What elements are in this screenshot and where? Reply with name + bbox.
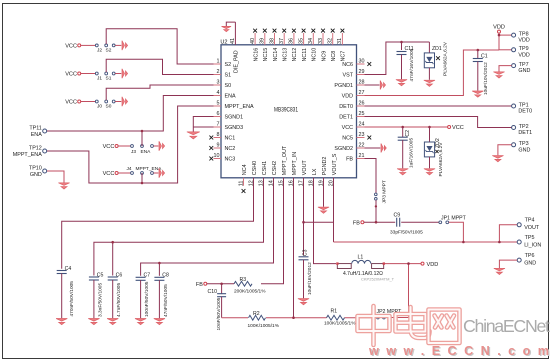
- svg-text:NC15: NC15: [263, 48, 269, 62]
- svg-text:LI_ION: LI_ION: [524, 242, 541, 248]
- wire SGND1 SGND3: [193, 117, 213, 132]
- wire S0 net: [106, 85, 213, 100]
- wire JP2 to VDD: [385, 264, 408, 318]
- test point TP12 MPPT_ENA: [13, 146, 47, 159]
- svg-text:NC8: NC8: [331, 51, 337, 62]
- svg-text:9: 9: [217, 143, 220, 149]
- svg-text:29: 29: [359, 69, 365, 75]
- wire J1 to ground: [115, 73, 121, 75]
- wire J3 to ground: [154, 145, 159, 147]
- jumper J0 S0: [95, 100, 115, 110]
- junction C8 top: [158, 262, 161, 265]
- svg-text:24: 24: [359, 122, 365, 128]
- svg-text:33pF/50V/1005: 33pF/50V/1005: [390, 230, 423, 236]
- power VCC J3: [103, 144, 119, 150]
- svg-text:GND: GND: [30, 172, 42, 178]
- ground C5: [88, 319, 99, 325]
- svg-text:VDD: VDD: [518, 52, 529, 58]
- svg-text:C2: C2: [405, 130, 411, 137]
- wire VCC to J4: [118, 172, 131, 174]
- svg-text:10nF/50V/1005: 10nF/50V/1005: [216, 297, 222, 330]
- power VCC terminal: [448, 125, 464, 131]
- wire VOUT net: [303, 178, 305, 256]
- svg-text:21: 21: [359, 153, 365, 159]
- svg-text:5: 5: [217, 101, 220, 107]
- ground J0: [122, 97, 128, 107]
- capacitor C8: [154, 273, 169, 319]
- ground C11: [396, 80, 407, 86]
- ground C6: [107, 319, 118, 325]
- svg-text:J2: J2: [97, 48, 102, 54]
- wire SGND2: [365, 147, 381, 149]
- jumper J3 ENA: [131, 145, 154, 155]
- svg-text:NC6: NC6: [342, 62, 353, 68]
- test point TP11 ENA: [29, 126, 46, 139]
- svg-text:22: 22: [359, 143, 365, 149]
- svg-text:PLVA662A,6.2V: PLVA662A,6.2V: [443, 41, 449, 76]
- svg-text:LX: LX: [312, 168, 318, 175]
- svg-text:100nF/50V/1005: 100nF/50V/1005: [144, 281, 150, 317]
- zener diode ZD2: [424, 127, 443, 177]
- svg-text:J0: J0: [97, 104, 102, 110]
- wire VST net: [365, 42, 430, 75]
- ground TP7: [493, 72, 504, 78]
- svg-text:4: 4: [217, 90, 220, 96]
- test point TP8 VDD: [512, 32, 530, 44]
- resistor R1 100K: [324, 309, 356, 327]
- power VCC J4: [103, 171, 119, 177]
- wire VDD net: [365, 33, 512, 95]
- svg-text:SGND3: SGND3: [225, 125, 244, 131]
- wire ENA net: [47, 96, 214, 147]
- test point TP9 VDD: [512, 46, 530, 58]
- svg-text:PGND1: PGND1: [334, 83, 353, 89]
- svg-text:S2: S2: [225, 62, 232, 68]
- svg-text:TP8: TP8: [519, 32, 529, 38]
- svg-text:w w w . E C C N . c o m: w w w . E C C N . c o m: [368, 344, 549, 358]
- svg-text:TP1: TP1: [519, 102, 529, 108]
- svg-text:47nF/50V/1005: 47nF/50V/1005: [163, 284, 169, 317]
- svg-text:VDD: VDD: [518, 38, 529, 44]
- ground J3: [159, 141, 165, 151]
- junction VDD/TP8: [498, 34, 501, 37]
- svg-text:PLVA662A,6.2V: PLVA662A,6.2V: [438, 142, 444, 177]
- junction FB/JP3: [375, 221, 378, 224]
- svg-text:NC13: NC13: [283, 48, 289, 62]
- capacitor C5: [89, 272, 104, 318]
- junction MPPT_IN/rail: [292, 316, 295, 319]
- wire FB row: [364, 221, 439, 223]
- ground ZD1: [424, 80, 435, 86]
- svg-text:TP3: TP3: [519, 141, 529, 147]
- wire CSH1 net: [94, 178, 264, 276]
- capacitor C2: [398, 127, 415, 168]
- ground SGND1/SGND3: [187, 132, 200, 139]
- wire VOUT_S net: [304, 178, 518, 242]
- capacitor C6: [108, 272, 123, 318]
- wire TP6 to ground: [499, 260, 517, 268]
- svg-text:SGND1: SGND1: [225, 115, 244, 121]
- svg-text:27: 27: [359, 90, 365, 96]
- svg-text:6: 6: [217, 111, 220, 117]
- ground TP6: [494, 268, 505, 274]
- wire FB lower rail: [222, 317, 377, 319]
- jumper J4 MPPT_ENA: [127, 166, 163, 175]
- svg-text:J1: J1: [97, 76, 102, 82]
- ground C8: [154, 319, 165, 325]
- svg-text:C4: C4: [65, 266, 72, 272]
- svg-text:TP10: TP10: [29, 166, 42, 172]
- svg-text:ZD1: ZD1: [432, 46, 442, 52]
- svg-text:S0: S0: [106, 104, 112, 110]
- svg-text:SGND2: SGND2: [334, 146, 353, 152]
- svg-text:U2: U2: [220, 39, 227, 45]
- capacitor C4: [57, 266, 75, 318]
- svg-text:C7: C7: [144, 273, 151, 279]
- svg-text:3.3nF/50V/1005: 3.3nF/50V/1005: [97, 283, 103, 317]
- svg-text:GND: GND: [518, 68, 530, 74]
- svg-text:26: 26: [359, 101, 365, 107]
- jumper JP3 MPPT: [375, 180, 388, 203]
- svg-text:TP11: TP11: [29, 126, 41, 132]
- svg-text:10uF/10V/2012: 10uF/10V/2012: [483, 62, 489, 95]
- junction TP4 riser: [498, 241, 501, 244]
- jumper JP2 MPPT: [377, 309, 403, 319]
- wire TP7 to ground: [499, 66, 512, 72]
- svg-text:R1: R1: [331, 309, 338, 315]
- svg-text:34: 34: [308, 38, 314, 44]
- svg-text:1uF/16V/1005: 1uF/16V/1005: [408, 138, 414, 168]
- node FB (left): [196, 282, 207, 288]
- power VDD right: [421, 262, 438, 268]
- svg-text:R3: R3: [240, 277, 247, 283]
- svg-text:33: 33: [318, 38, 324, 44]
- svg-text:C5: C5: [97, 272, 104, 278]
- svg-text:TP5: TP5: [525, 235, 535, 241]
- svg-text:4.7nF/50V/1005: 4.7nF/50V/1005: [116, 283, 122, 317]
- svg-text:DET1: DET1: [339, 115, 353, 121]
- svg-text:ChinaECNet: ChinaECNet: [463, 316, 550, 336]
- svg-text:VCC: VCC: [65, 72, 77, 78]
- svg-text:MPPT_ENA: MPPT_ENA: [225, 104, 254, 110]
- svg-text:NC5: NC5: [342, 136, 353, 142]
- svg-text:C10: C10: [208, 289, 218, 295]
- svg-text:NC7: NC7: [341, 51, 347, 62]
- ground C1: [472, 91, 483, 97]
- test point TP10 GND: [29, 166, 47, 179]
- wire CSH0 net: [62, 178, 254, 269]
- svg-text:C6: C6: [116, 272, 123, 278]
- power VCC J1: [65, 72, 81, 78]
- svg-text:R2: R2: [253, 311, 260, 317]
- svg-text:CSH0: CSH0: [252, 161, 258, 175]
- svg-text:NC12: NC12: [292, 48, 298, 62]
- svg-text:VCC: VCC: [103, 144, 115, 150]
- svg-text:39: 39: [260, 38, 266, 44]
- svg-text:S0: S0: [225, 83, 232, 89]
- ground J2: [122, 41, 128, 51]
- svg-text:DET0: DET0: [518, 109, 532, 115]
- wire LX net: [314, 178, 337, 264]
- svg-text:VDD: VDD: [427, 262, 439, 268]
- svg-text:VDD: VDD: [342, 94, 353, 100]
- wire MPPT_IN net: [293, 178, 295, 318]
- wire VCC to J2: [81, 44, 96, 46]
- svg-text:L1: L1: [358, 255, 364, 261]
- jumper J2 S2: [95, 44, 115, 54]
- junction ZD2 top: [428, 126, 431, 129]
- ground C4: [56, 319, 67, 325]
- svg-text:NC11: NC11: [302, 48, 308, 61]
- junction C2 top: [401, 126, 404, 129]
- test point TP2 DET1: [512, 124, 533, 136]
- ground PGND2: [318, 207, 329, 213]
- svg-text:ENA: ENA: [31, 132, 42, 138]
- ground ZD2: [424, 169, 435, 175]
- svg-text:S1: S1: [106, 76, 112, 82]
- svg-text:MPPT_ENA: MPPT_ENA: [136, 166, 163, 172]
- svg-text:VCC: VCC: [65, 100, 77, 106]
- wire FB to R3: [207, 283, 234, 285]
- svg-text:FB: FB: [196, 282, 203, 288]
- wire MPPT_ENA net: [47, 106, 214, 183]
- power VCC J0: [65, 100, 81, 106]
- capacitor C9: [390, 213, 423, 236]
- ground C3: [298, 299, 309, 305]
- junction C11 top: [400, 41, 403, 44]
- svg-text:VCC: VCC: [452, 125, 464, 131]
- svg-text:23: 23: [359, 132, 365, 138]
- svg-text:GND: GND: [524, 260, 536, 266]
- svg-text:38: 38: [269, 38, 275, 44]
- svg-text:31: 31: [337, 38, 343, 44]
- ground DIE_PAD: [222, 26, 232, 31]
- svg-text:41: 41: [230, 38, 236, 44]
- power VCC J2: [65, 44, 81, 50]
- capacitor C1: [473, 50, 489, 95]
- ground C2: [397, 169, 408, 175]
- wire JP3 to FB node: [375, 200, 377, 222]
- svg-text:C1: C1: [481, 54, 488, 60]
- svg-text:2: 2: [217, 69, 220, 75]
- ground C7: [135, 319, 146, 325]
- jumper J1 S1: [95, 72, 115, 82]
- wire PGND1: [365, 84, 380, 86]
- svg-text:10: 10: [214, 153, 220, 159]
- svg-text:NC14: NC14: [273, 48, 279, 62]
- power VDD top: [493, 25, 505, 33]
- test point TP6 GND: [517, 253, 536, 267]
- jumper JP1 MPPT: [439, 215, 467, 223]
- svg-text:NC2: NC2: [225, 146, 236, 152]
- resistor R2 100K: [248, 311, 280, 329]
- svg-text:35: 35: [298, 38, 304, 44]
- junction VOUT/VOUT_S: [302, 221, 305, 224]
- capacitor C11: [397, 42, 416, 82]
- svg-text:100K/1005/1%: 100K/1005/1%: [248, 323, 280, 329]
- svg-text:S1: S1: [225, 73, 232, 79]
- junction JP2 riser: [407, 262, 410, 265]
- svg-text:CKP2520M4TM_T: CKP2520M4TM_T: [361, 276, 395, 281]
- svg-text:11: 11: [238, 181, 244, 187]
- wire DET1 net: [365, 117, 512, 128]
- svg-text:MPPT_OUT: MPPT_OUT: [282, 145, 288, 175]
- svg-text:TP4: TP4: [525, 218, 535, 224]
- svg-text:3: 3: [217, 80, 220, 86]
- junction C10 top: [220, 283, 223, 286]
- wire VCC net: [365, 126, 448, 128]
- svg-text:470nF/50V/1005: 470nF/50V/1005: [69, 281, 75, 317]
- junction C1 top: [477, 49, 480, 52]
- svg-text:NC10: NC10: [312, 48, 318, 62]
- ground TP10: [58, 183, 69, 189]
- svg-text:NC9: NC9: [321, 51, 327, 62]
- svg-text:VOUT: VOUT: [302, 160, 308, 176]
- wire VCC to J0: [81, 101, 96, 103]
- ground J4: [159, 168, 165, 178]
- svg-text:JP1 MPPT: JP1 MPPT: [441, 215, 467, 221]
- svg-text:37: 37: [279, 38, 285, 44]
- wire TP3 to ground: [498, 145, 512, 156]
- wire J2 to ground: [115, 44, 121, 46]
- svg-text:NC16: NC16: [253, 48, 259, 62]
- wire S1 net: [106, 59, 213, 74]
- svg-text:8: 8: [217, 132, 220, 138]
- svg-text:47nF/16V/1005: 47nF/16V/1005: [409, 48, 415, 81]
- svg-text:J3: J3: [131, 149, 136, 155]
- svg-text:TP2: TP2: [519, 124, 529, 130]
- svg-text:MB39C831: MB39C831: [274, 108, 299, 114]
- junction MPPT_ENA/J4: [141, 182, 144, 185]
- svg-text:S2: S2: [106, 48, 112, 54]
- wire PGND2: [323, 178, 325, 207]
- svg-text:C9: C9: [394, 213, 401, 219]
- junction JP1 riser: [462, 241, 465, 244]
- svg-text:40: 40: [250, 38, 256, 44]
- svg-text:TP7: TP7: [519, 62, 529, 68]
- ground PGND1: [380, 81, 385, 90]
- capacitor C7: [136, 273, 151, 319]
- svg-text:FB: FB: [353, 220, 360, 226]
- svg-text:TP6: TP6: [525, 253, 535, 259]
- svg-text:VCC: VCC: [342, 125, 353, 131]
- wire J0 to ground: [115, 101, 121, 103]
- svg-text:MPPT_IN: MPPT_IN: [292, 152, 298, 175]
- wire L1 to VDD: [385, 263, 421, 265]
- resistor R3 200K: [234, 277, 266, 295]
- svg-text:FB: FB: [346, 157, 353, 163]
- IC U2 MB39C831: [209, 22, 371, 193]
- junction ENA/J3: [141, 130, 144, 133]
- svg-text:DET1: DET1: [518, 130, 532, 136]
- wire TP10 to ground: [47, 171, 64, 183]
- svg-text:10uF/16V/2012: 10uF/16V/2012: [307, 262, 313, 295]
- svg-text:C3: C3: [302, 249, 308, 256]
- svg-text:ENA: ENA: [225, 94, 236, 100]
- ground TP3: [492, 156, 503, 162]
- svg-text:NC4: NC4: [242, 164, 248, 175]
- wire VCC to J1: [81, 73, 96, 75]
- ground SGND2: [381, 144, 386, 153]
- svg-text:VOUT: VOUT: [524, 225, 540, 231]
- svg-text:32: 32: [328, 38, 334, 44]
- svg-text:JP3 MPPT: JP3 MPPT: [382, 180, 388, 203]
- svg-text:C8: C8: [162, 273, 169, 279]
- svg-text:25: 25: [359, 111, 365, 117]
- svg-text:VOUT_S: VOUT_S: [332, 153, 338, 175]
- svg-text:GND: GND: [518, 147, 530, 153]
- svg-text:J4: J4: [127, 166, 132, 172]
- junction C6 top: [111, 241, 114, 244]
- svg-text:200K/1005/1%: 200K/1005/1%: [234, 289, 266, 295]
- capacitor C3: [299, 249, 313, 298]
- svg-text:DET0: DET0: [339, 104, 353, 110]
- test point TP3 GND: [512, 141, 531, 153]
- wire CSH2 net: [141, 178, 274, 276]
- svg-text:7: 7: [217, 122, 220, 128]
- wire S2 net: [106, 29, 213, 64]
- test point TP1 DET0: [512, 102, 533, 114]
- svg-text:ENA: ENA: [141, 149, 152, 155]
- inductor L1: [336, 255, 394, 282]
- watermark ChinaECNet: [358, 306, 551, 359]
- svg-text:NC3: NC3: [225, 157, 236, 163]
- svg-text:VCC: VCC: [103, 171, 115, 177]
- wire FB pin21 to JP3: [365, 159, 377, 194]
- capacitor C10: [208, 284, 227, 331]
- wire DET0 net: [365, 105, 512, 107]
- svg-text:VCC: VCC: [65, 44, 77, 50]
- zener diode ZD1: [424, 41, 448, 80]
- test point TP4 VOUT: [517, 218, 540, 232]
- svg-text:1: 1: [217, 59, 220, 65]
- svg-text:TP12: TP12: [29, 146, 42, 152]
- svg-text:100K/1005/1%: 100K/1005/1%: [324, 321, 356, 327]
- wire VCC to J3: [118, 145, 131, 147]
- svg-text:CSH2: CSH2: [272, 161, 278, 175]
- svg-text:CSH1: CSH1: [262, 161, 268, 175]
- wire J4 to ground: [154, 172, 159, 174]
- svg-text:DIE_PAD: DIE_PAD: [234, 50, 240, 73]
- svg-text:NC1: NC1: [225, 136, 236, 142]
- test point TP7 GND: [512, 62, 531, 74]
- test point TP5 LI_ION: [517, 235, 541, 249]
- svg-text:MPPT_ENA: MPPT_ENA: [13, 152, 42, 158]
- node FB (right): [353, 220, 364, 226]
- svg-text:VST: VST: [343, 73, 354, 79]
- svg-text:30: 30: [359, 59, 365, 65]
- wire MPPT_OUT to R3: [261, 178, 284, 284]
- wire JP1 to VOUT rail: [449, 222, 464, 242]
- svg-text:36: 36: [289, 38, 295, 44]
- ground J1: [122, 69, 128, 79]
- svg-text:PGND2: PGND2: [322, 157, 328, 176]
- svg-text:28: 28: [359, 80, 365, 86]
- wire DIE_PAD to ground: [226, 22, 235, 26]
- svg-text:TP9: TP9: [519, 46, 529, 52]
